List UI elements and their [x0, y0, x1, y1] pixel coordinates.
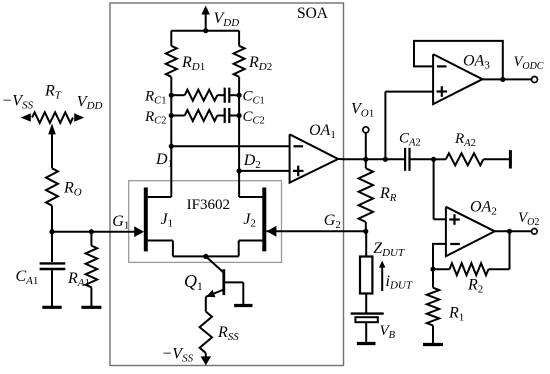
svg-text:SOA: SOA	[297, 5, 329, 22]
svg-text:IF3602: IF3602	[187, 197, 230, 213]
